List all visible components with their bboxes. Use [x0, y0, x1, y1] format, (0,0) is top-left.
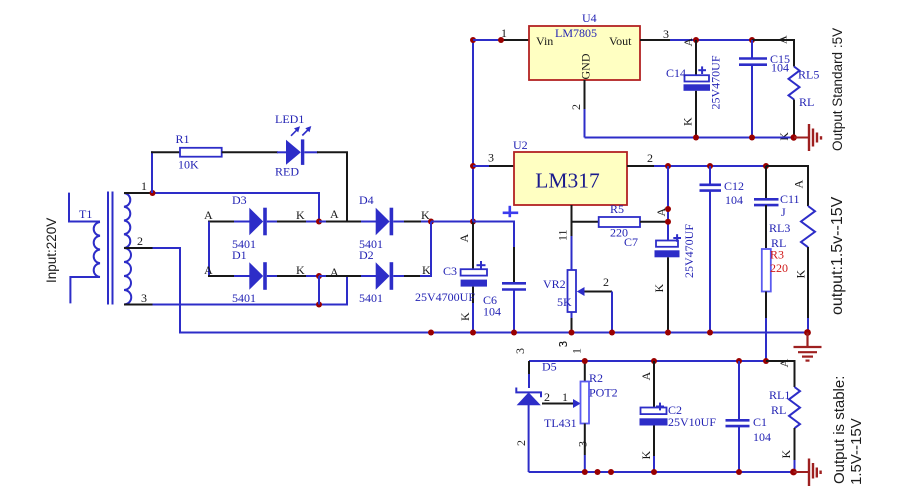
transformer T1 [69, 192, 131, 305]
svg-text:RL: RL [799, 95, 814, 109]
node C2 bottom [651, 469, 657, 475]
label D1 [232, 248, 247, 262]
label K C14 [681, 117, 695, 126]
label C3 [443, 264, 457, 278]
label 104 C6 [483, 305, 501, 319]
wire D1 anode lead [208, 275, 235, 277]
label K D4 [421, 208, 430, 222]
svg-text:A: A [330, 265, 339, 279]
wire VR2 wiper [585, 292, 613, 333]
wire D3 cathode to node [277, 221, 306, 223]
input label [44, 218, 59, 283]
label RL3 [769, 221, 790, 235]
svg-text:1: 1 [501, 26, 507, 40]
capacitor C1 [726, 361, 750, 472]
svg-text:2: 2 [544, 390, 550, 404]
svg-text:D4: D4 [359, 193, 374, 207]
wire LM317 adj pin 11 [571, 205, 573, 270]
label A D3 [204, 208, 213, 222]
svg-text:A: A [792, 180, 806, 189]
label pin 3 R2 top a [556, 341, 570, 347]
svg-text:C1: C1 [753, 415, 767, 429]
wire tap1 stub [124, 192, 150, 194]
label A D4 [330, 207, 339, 221]
wiper arrow R2 [573, 399, 581, 408]
node stray a [595, 469, 601, 475]
wire 5V rail [696, 39, 752, 41]
label pin 2 TL431 ref [544, 390, 550, 404]
wire U4 pin3 [640, 39, 696, 41]
label K D2 [422, 263, 431, 277]
svg-text:C3: C3 [443, 264, 457, 278]
wire D3 anode lead [208, 221, 235, 223]
label C14 [666, 66, 686, 80]
wire D4 cathode to node [404, 221, 421, 223]
svg-text:Input:220V: Input:220V [44, 218, 59, 283]
node tap3 junction [316, 302, 322, 308]
svg-text:A: A [654, 208, 668, 217]
wire tap3 stub [124, 304, 153, 306]
svg-text:1: 1 [570, 348, 584, 354]
label D5 [542, 360, 557, 374]
wire adj branch vertical [667, 166, 669, 241]
svg-text:C11: C11 [780, 192, 800, 206]
diode D1 [234, 262, 319, 290]
svg-text:1: 1 [141, 179, 147, 193]
wire R1 riser [151, 151, 153, 193]
node tap1 [150, 190, 156, 196]
svg-text:RL5: RL5 [798, 68, 819, 82]
svg-text:GND: GND [579, 53, 593, 79]
node C15 top [749, 37, 755, 43]
wire R1 to LED1 [222, 151, 278, 153]
svg-text:104: 104 [771, 61, 789, 75]
svg-text:5K: 5K [557, 295, 572, 309]
wire LM317 pin3 [473, 165, 514, 167]
wire rail to RL5 [752, 40, 794, 67]
wire C3 to ground rail [472, 303, 474, 333]
node C7 ground [665, 330, 671, 336]
label A D2 [330, 265, 339, 279]
label A C2 [639, 372, 653, 381]
svg-text:A: A [330, 207, 339, 221]
ground stable output [794, 459, 821, 487]
svg-text:U4: U4 [582, 11, 597, 25]
wire D2 anode lead [325, 275, 362, 277]
label K RL3 [794, 270, 808, 279]
svg-text:D3: D3 [232, 193, 247, 207]
svg-text:K: K [652, 284, 666, 293]
svg-text:104: 104 [483, 305, 501, 319]
wire R2 top lead [584, 361, 586, 382]
node VR2 ground [569, 330, 575, 336]
wire tap2 stub [124, 247, 153, 249]
svg-text:25V10UF: 25V10UF [668, 415, 716, 429]
svg-text:25V470UF: 25V470UF [682, 224, 696, 278]
svg-text:R2: R2 [589, 371, 603, 385]
svg-text:Output Standard :5V: Output Standard :5V [830, 28, 845, 151]
wire tap1 to bridge [153, 193, 320, 222]
svg-text:R1: R1 [176, 132, 190, 146]
label A RL1 [777, 359, 791, 368]
label K D1 [296, 263, 305, 277]
wire RL5 bottom [793, 100, 795, 138]
svg-text:K: K [779, 450, 793, 459]
svg-text:R3: R3 [770, 248, 784, 262]
regulator U4 LM7805 [529, 26, 640, 80]
svg-text:25V470UF: 25V470UF [709, 55, 723, 109]
label A C7 [654, 208, 668, 217]
label 104 C1 [753, 430, 771, 444]
label pin 1 R2 top b [570, 348, 584, 354]
svg-text:A: A [204, 263, 213, 277]
capacitor C7 25V470UF [655, 234, 682, 332]
svg-text:VR2: VR2 [543, 277, 566, 291]
label 10K [178, 157, 199, 171]
node riser top [470, 37, 476, 43]
label A RL3 [792, 180, 806, 189]
capacitor C2 [640, 361, 668, 472]
svg-text:K: K [794, 270, 808, 279]
label 104 C15 [771, 61, 789, 75]
label A RL5 [776, 35, 790, 44]
label 5401 D3 [232, 237, 256, 251]
label K C2 [639, 451, 653, 460]
wire U4 pin1 [473, 39, 529, 41]
svg-text:A: A [639, 372, 653, 381]
wire RL1 bottom [794, 428, 796, 472]
node R3 stable rail [763, 358, 769, 364]
capacitor C12 [700, 166, 722, 333]
label RL1 [769, 388, 790, 402]
diode D4 [319, 208, 431, 236]
label D4 [359, 193, 374, 207]
LED LED1 [277, 126, 311, 165]
wire main riser to 7805 rail [472, 40, 474, 222]
label VR2 [543, 277, 566, 291]
label A C3 [457, 234, 471, 243]
svg-text:25V4700UF: 25V4700UF [415, 290, 475, 304]
node C12 ground [707, 330, 713, 336]
wire D4K-D2K tie [430, 222, 432, 278]
node C1 bottom [736, 469, 742, 475]
regulator U2 LM317 [514, 152, 627, 205]
svg-text:2: 2 [569, 104, 583, 110]
svg-text:3: 3 [663, 27, 669, 41]
svg-text:3: 3 [488, 151, 494, 165]
label pin 1 U4 [501, 26, 507, 40]
label 5401 D4 [359, 237, 383, 251]
node C3 top [470, 219, 476, 225]
svg-text:220: 220 [770, 261, 788, 275]
label pin 2 VR2 [603, 275, 609, 289]
wire rail to RL1 [766, 361, 795, 387]
label U2 [513, 138, 528, 152]
node output C11 [763, 163, 769, 169]
wire R5 left lead [572, 221, 599, 223]
svg-text:A: A [204, 208, 213, 222]
svg-text:K: K [681, 117, 695, 126]
label pin 3 R2 bottom [576, 441, 590, 447]
wire LED1 cathode down to D4 anode [304, 152, 347, 221]
svg-text:2: 2 [603, 275, 609, 289]
polarity plus C6 [503, 206, 519, 217]
label LED1 [275, 112, 304, 126]
label U4 [582, 11, 597, 25]
label 1.5V--15V [848, 418, 865, 485]
svg-text:104: 104 [725, 193, 743, 207]
svg-text:104: 104 [753, 430, 771, 444]
node C15 bottom [749, 135, 755, 141]
svg-text:R5: R5 [610, 202, 624, 216]
svg-text:K: K [777, 132, 791, 141]
label POT2 [589, 386, 618, 400]
label K C3 [458, 312, 472, 321]
label C7 [624, 235, 638, 249]
svg-text:C7: C7 [624, 235, 638, 249]
node C14 bottom [693, 135, 699, 141]
label pin 2 TL431 bottom [514, 440, 528, 446]
wire stable block top rail [529, 360, 767, 362]
capacitor C15 [739, 40, 767, 138]
svg-text:2: 2 [647, 151, 653, 165]
svg-text:RL3: RL3 [769, 221, 790, 235]
label K C7 [652, 284, 666, 293]
node output C12 [707, 163, 713, 169]
capacitor C14 [684, 40, 711, 138]
capacitor C3 [461, 222, 487, 306]
wire 5V ground rail [585, 137, 795, 139]
wire C6 branch top [473, 222, 514, 284]
svg-text:A: A [776, 35, 790, 44]
svg-text:output:1.5v--15V: output:1.5v--15V [829, 196, 846, 315]
label C1 [753, 415, 767, 429]
node R2 bottom [582, 469, 588, 475]
node C1 top [736, 358, 742, 364]
label pin 11 [556, 229, 570, 241]
shunt regulator D5 TL431 [516, 388, 541, 473]
node riser LM317 [470, 163, 476, 169]
potentiometer VR2 [568, 270, 585, 333]
label A C14 [681, 38, 695, 47]
label pin 3 U4 [663, 27, 669, 41]
wire LM317 pin2 [627, 165, 668, 167]
label pin 3 LM317 [488, 151, 494, 165]
label R3 [770, 248, 784, 262]
svg-text:K: K [296, 208, 305, 222]
label RL5 [798, 68, 819, 82]
label K RL5 [777, 132, 791, 141]
label J C11 [781, 205, 786, 219]
capacitor C6 [502, 283, 526, 289]
label pin 3 VR2 [556, 341, 570, 347]
wire C11 to R3 [765, 205, 767, 248]
label A D1 [204, 263, 213, 277]
svg-text:D2: D2 [359, 248, 374, 262]
resistor RL5 [789, 67, 800, 100]
svg-text:K: K [422, 263, 431, 277]
label D2 [359, 248, 374, 262]
node C3 ground [470, 330, 476, 336]
label pin 2 LM317 [647, 151, 653, 165]
label K D3 [296, 208, 305, 222]
label Output is stable [831, 376, 848, 484]
svg-text:3: 3 [513, 348, 527, 354]
node R2 top [582, 358, 588, 364]
label R5 [610, 202, 624, 216]
wire R2 bottom lead [584, 424, 586, 473]
svg-text:LM317: LM317 [535, 169, 600, 193]
svg-text:LED1: LED1 [275, 112, 304, 126]
svg-text:A: A [681, 38, 695, 47]
label pin 3 [141, 291, 147, 305]
svg-text:Vout: Vout [609, 34, 632, 48]
svg-text:K: K [458, 312, 472, 321]
svg-text:2: 2 [514, 440, 528, 446]
node adj A [665, 206, 671, 212]
label RL RL3 [771, 236, 786, 250]
node C6 ground [511, 330, 517, 336]
node output C7 [665, 163, 671, 169]
wire tap3 to D2 anode [153, 276, 348, 305]
label 25V470UF C14 [709, 55, 723, 109]
node RL5 ground [791, 134, 797, 140]
wire output rail to RL3 [766, 166, 808, 206]
node wiper ground [609, 330, 615, 336]
svg-text:1.5V--15V: 1.5V--15V [848, 418, 865, 485]
resistor RL1 [789, 387, 800, 428]
node stray b [608, 469, 614, 475]
ground 5V output [794, 124, 821, 151]
label 25V470UF C7 [682, 224, 696, 278]
label K RL1 [779, 450, 793, 459]
node C14 top [693, 37, 699, 43]
label TL431 [544, 416, 577, 430]
resistor R1 [180, 148, 222, 157]
label 104 C12 [725, 193, 743, 207]
svg-text:A: A [457, 234, 471, 243]
label pin 2 U4 [569, 104, 583, 110]
wire RL3 bottom [807, 247, 809, 333]
svg-text:T1: T1 [79, 207, 92, 221]
svg-text:A: A [777, 359, 791, 368]
svg-text:5401: 5401 [359, 291, 383, 305]
label C15 [770, 52, 790, 66]
svg-text:LM7805: LM7805 [555, 26, 597, 40]
node U4 pin1 [498, 37, 504, 43]
node main ground [804, 329, 811, 336]
svg-text:3: 3 [576, 441, 590, 447]
label 25V4700UF [415, 290, 475, 304]
svg-text:3: 3 [141, 291, 147, 305]
resistor R5 [599, 217, 640, 227]
svg-text:2: 2 [137, 234, 143, 248]
wire D4 anode lead [325, 221, 362, 223]
label 220 R5 [610, 226, 628, 240]
ground main [794, 333, 822, 361]
label C6 [483, 293, 497, 307]
wire R3 bottom to stable rail [765, 292, 767, 362]
label 25V10UF [668, 415, 716, 429]
label D3 [232, 193, 247, 207]
wire U4 pin2 [584, 80, 586, 138]
label Output Standard :5V [830, 28, 845, 151]
svg-text:J: J [781, 205, 786, 219]
node RL1 ground [790, 469, 797, 476]
svg-text:K: K [639, 451, 653, 460]
svg-text:RED: RED [275, 165, 299, 179]
wire TL431 ref to R2 wiper [542, 403, 574, 405]
wire TL431 top lead [528, 361, 530, 388]
svg-text:1: 1 [562, 390, 568, 404]
svg-text:C12: C12 [724, 179, 744, 193]
diode D2 [319, 262, 431, 290]
wire D1K node down to tap3 [318, 276, 320, 305]
svg-text:D5: D5 [542, 360, 557, 374]
label RL RL5 [799, 95, 814, 109]
node D4 cathode [428, 219, 434, 225]
label C11 [780, 192, 800, 206]
svg-text:5401: 5401 [232, 291, 256, 305]
svg-text:U2: U2 [513, 138, 528, 152]
svg-text:10K: 10K [178, 157, 199, 171]
wire LM317 output rail [668, 165, 766, 167]
wire C6 bottom [513, 290, 515, 333]
svg-text:K: K [296, 263, 305, 277]
svg-text:RL: RL [771, 403, 786, 417]
wire R5 right lead [640, 221, 668, 223]
svg-text:POT2: POT2 [589, 386, 618, 400]
label pin 3 TL431 [513, 348, 527, 354]
resistor R3 [762, 249, 771, 292]
label 220 R3 [770, 261, 788, 275]
label R1 [176, 132, 190, 146]
label 5401 D1 [232, 291, 256, 305]
label output 1.5v--15V [829, 196, 846, 315]
svg-text:D1: D1 [232, 248, 247, 262]
label C12 [724, 179, 744, 193]
node stray ground rail [428, 330, 434, 336]
svg-text:RL1: RL1 [769, 388, 790, 402]
label 5401 D2 [359, 291, 383, 305]
wire stable block bottom rail [529, 471, 794, 473]
label RL RL1 [771, 403, 786, 417]
label C2 [668, 403, 682, 417]
wire D2 cathode to corner [404, 275, 420, 277]
capacitor C11 [754, 166, 779, 205]
svg-text:Output is stable:: Output is stable: [831, 376, 848, 484]
label pin 2 [137, 234, 143, 248]
diode D3 [234, 208, 319, 236]
svg-text:C14: C14 [666, 66, 686, 80]
svg-text:Vin: Vin [536, 34, 553, 48]
wire D1 cathode to node [277, 275, 306, 277]
wire D3-D1 anode tie [208, 222, 210, 277]
label 5K [557, 295, 572, 309]
svg-text:11: 11 [556, 229, 570, 241]
node C2 top [651, 358, 657, 364]
potentiometer R2 [581, 382, 590, 424]
resistor RL3 zigzag [801, 206, 815, 247]
node D1 cathode [316, 273, 322, 279]
node adj R5 [665, 219, 671, 225]
label R2 [589, 371, 603, 385]
svg-text:3: 3 [556, 341, 570, 347]
label pin 1 [141, 179, 147, 193]
label T1 [79, 207, 92, 221]
wire R1 left lead [151, 151, 180, 153]
svg-text:TL431: TL431 [544, 416, 577, 430]
